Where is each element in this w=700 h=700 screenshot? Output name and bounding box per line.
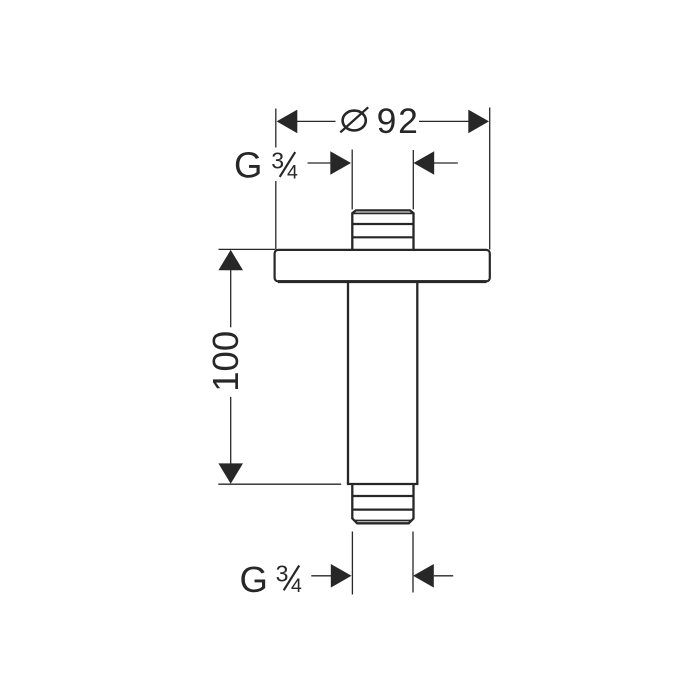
svg-text:G: G: [240, 559, 268, 600]
dimension 100: down arrowhead: [218, 463, 243, 483]
dimension G3/4 bottom: right extension line: [412, 532, 414, 593]
dimension G3/4 top: right arrowhead (points left at thread): [414, 151, 435, 175]
dimension G3/4 top: right extension line: [412, 150, 414, 209]
dimension G3/4 top: left leader line: [308, 162, 332, 164]
pipe right wall: [416, 282, 418, 484]
dimension Ø92: value text: [343, 111, 366, 131]
dimension Ø92: dimension line right segment: [419, 120, 470, 122]
svg-text:3: 3: [276, 561, 289, 587]
dimension 100: top extension line at flange top: [219, 248, 276, 250]
top thread crest line 3: [352, 236, 413, 238]
svg-text:3: 3: [271, 147, 284, 173]
pipe left wall: [347, 282, 349, 484]
dimension 100: bottom extension line at pipe end: [218, 483, 341, 485]
dimension Ø92: dimension line left segment: [297, 120, 336, 122]
dimension G3/4 bottom: right arrowhead: [413, 564, 434, 588]
dimension 100: vertical dimension line upper segment: [230, 270, 232, 328]
bottom thread crest line 1: [352, 495, 413, 497]
top thread crest line 2: [352, 223, 413, 225]
dimension Ø92: left extension line (broken around G 3/4 text): [275, 109, 277, 148]
dimension Ø92: right extension line: [489, 108, 491, 250]
bottom thread chamfer line: [354, 520, 413, 522]
dimension Ø92: left arrowhead: [277, 110, 298, 134]
dimension G3/4 bottom: right leader line: [434, 575, 454, 577]
dimension G3/4 top: left extension line: [351, 150, 353, 210]
bottom thread outline (lower connection spigot): [352, 484, 413, 523]
svg-text:G: G: [234, 145, 262, 186]
ceiling flange plate: [275, 250, 490, 282]
dimension Ø92: right arrowhead: [468, 110, 489, 134]
svg-text:100: 100: [205, 331, 246, 392]
pipe bottom shoulder: [347, 483, 419, 485]
dimension G3/4 bottom: left extension line: [351, 532, 353, 595]
dimension G3/4 bottom: left arrowhead: [331, 564, 352, 588]
top thread outline (upper connection spigot): [352, 210, 413, 250]
svg-text:92: 92: [377, 101, 420, 141]
dimension G3/4 top: right leader line: [434, 162, 458, 164]
bottom thread crest line 2: [352, 509, 413, 511]
dimension 100: up arrowhead: [218, 250, 243, 270]
dimension 100: vertical dimension line lower segment: [230, 397, 232, 464]
svg-text:4: 4: [287, 161, 298, 183]
top thread crest line 1: [352, 212, 413, 214]
dimension G3/4 bottom: left leader line: [311, 575, 332, 577]
svg-text:4: 4: [291, 575, 302, 597]
dimension G3/4 top: left arrowhead (points right at thread): [330, 151, 351, 175]
